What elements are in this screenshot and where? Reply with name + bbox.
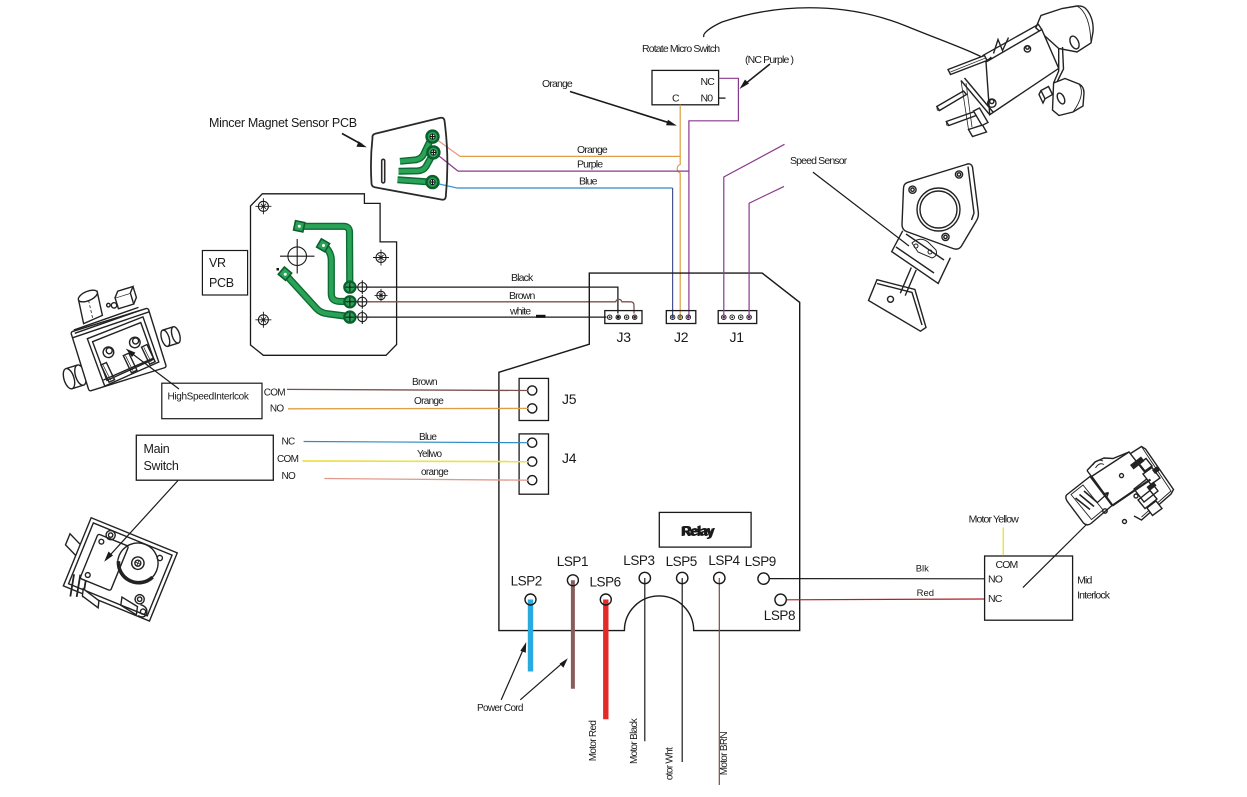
wire black LSP9 to mid interlock NO bbox=[769, 578, 985, 580]
connector J3 bbox=[605, 311, 642, 345]
svg-text:NC: NC bbox=[988, 593, 1003, 605]
svg-text:N0: N0 bbox=[701, 93, 714, 105]
motor wire labels (rotated) bbox=[588, 717, 730, 780]
mid interlock box bbox=[985, 556, 1111, 620]
small cube on top bbox=[113, 286, 138, 308]
Blk / Red wire labels bbox=[916, 564, 934, 599]
label (NC Purple) with arrow bbox=[740, 54, 794, 89]
svg-text:NC: NC bbox=[701, 76, 716, 88]
power cord label with arrows bbox=[477, 642, 568, 714]
wire brown VRPCB to J3 pin4 (hop over black) bbox=[367, 290, 634, 314]
tiny rings bbox=[106, 303, 111, 308]
pointer from HSI switch drawing to box bbox=[126, 349, 179, 389]
svg-text:C: C bbox=[672, 93, 680, 105]
main switch drawing bbox=[48, 513, 177, 628]
svg-text:LSP3: LSP3 bbox=[623, 553, 654, 568]
bottom-left mounting ear bbox=[61, 364, 88, 391]
speed sensor label bbox=[790, 155, 909, 246]
connector J4 bbox=[519, 434, 577, 494]
screw marks bbox=[255, 198, 389, 327]
svg-text:Motor Red: Motor Red bbox=[588, 721, 599, 762]
svg-text:otor Wht: otor Wht bbox=[665, 747, 676, 780]
rotate micro switch box U-RMS bbox=[642, 43, 726, 105]
lower mounting ear bbox=[1053, 79, 1085, 116]
wire cyan power LSP2 bbox=[528, 600, 533, 672]
screws (3d) bbox=[1024, 46, 1030, 52]
top bumps bbox=[1093, 460, 1104, 468]
small dot bbox=[277, 268, 280, 271]
svg-text:Red: Red bbox=[917, 588, 934, 599]
svg-text:J5: J5 bbox=[562, 391, 577, 407]
wire: blue from mincer pcb to J2 pin1 bbox=[437, 176, 673, 317]
front holes bbox=[102, 346, 115, 359]
wire brown HSI COM to J5 bbox=[287, 377, 528, 391]
svg-text:Switch: Switch bbox=[144, 459, 179, 473]
wire purple J1 pin4 to speed sensor bbox=[749, 186, 784, 314]
pad P3 bbox=[427, 176, 439, 188]
round pads bbox=[344, 282, 355, 323]
svg-text:Interlock: Interlock bbox=[1077, 590, 1111, 602]
wire yellow motor to mid interlock COM bbox=[969, 514, 1020, 556]
wire yellow MS COM to J4 bbox=[303, 449, 529, 462]
high speed interlock box bbox=[162, 383, 286, 419]
svg-text:NO: NO bbox=[282, 471, 297, 482]
svg-text:Motor Yellow: Motor Yellow bbox=[969, 514, 1020, 526]
LSP pads bbox=[531, 578, 985, 785]
svg-text:white: white bbox=[509, 306, 531, 318]
wire orange HSI NO to J5 bbox=[288, 396, 528, 409]
upper mounting ear bbox=[1036, 6, 1093, 52]
wire blue MS NC to J4 bbox=[304, 432, 528, 443]
svg-text:LSP9: LSP9 bbox=[745, 554, 776, 569]
wire brown power LSP1 bbox=[571, 580, 575, 689]
detail circles bbox=[1120, 474, 1124, 478]
LSP solder pads LSP1-LSP9 bbox=[525, 572, 786, 605]
wire red LSP8 to mid interlock NC bbox=[786, 598, 985, 601]
svg-text:COM: COM bbox=[264, 388, 286, 399]
svg-text:LSP8: LSP8 bbox=[764, 608, 795, 623]
main body bbox=[1092, 452, 1151, 506]
connector J5 bbox=[519, 378, 577, 420]
plunger bbox=[74, 287, 105, 323]
svg-text:LSP6: LSP6 bbox=[589, 575, 620, 590]
svg-text:Blue: Blue bbox=[579, 176, 598, 188]
arrow bbox=[1098, 493, 1109, 503]
svg-text:Blue: Blue bbox=[419, 432, 437, 443]
pointer from mid interlock box to switch drawing bbox=[1023, 524, 1087, 588]
relay box bbox=[659, 512, 751, 547]
svg-text:Mid: Mid bbox=[1077, 575, 1092, 587]
svg-text:LSP2: LSP2 bbox=[511, 574, 542, 589]
mincer magnet sensor PCB bbox=[209, 116, 447, 200]
svg-text:COM: COM bbox=[996, 559, 1018, 571]
rotate micro switch drawing (top right) bbox=[937, 6, 1093, 137]
pin stub NO bbox=[719, 97, 726, 99]
svg-text:Rotate Micro Switch: Rotate Micro Switch bbox=[642, 43, 720, 55]
wire purple J1 pin1 to speed sensor bbox=[724, 144, 785, 314]
svg-text:NO: NO bbox=[270, 404, 285, 415]
output terminals bbox=[355, 280, 369, 324]
svg-text:HighSpeedInterlcok: HighSpeedInterlcok bbox=[168, 392, 250, 403]
plug block bbox=[1066, 477, 1112, 525]
body back edge bbox=[983, 24, 1042, 62]
bracket spine connecting ears bbox=[1054, 47, 1064, 83]
svg-text:PCB: PCB bbox=[209, 276, 234, 290]
lever blade on top face bbox=[70, 305, 150, 338]
svg-text:Orange: Orange bbox=[577, 144, 608, 156]
label Orange with arrow to orange wire bbox=[542, 78, 677, 126]
bottom shelf line bbox=[102, 358, 156, 380]
dark latch details bbox=[1130, 457, 1145, 470]
wire white VRPCB to J3 pin1 bbox=[367, 306, 607, 318]
roller lever blade bbox=[948, 56, 987, 75]
svg-text:LSP1: LSP1 bbox=[557, 554, 588, 569]
zigzag spring notch bbox=[994, 38, 1009, 54]
main switch box bbox=[136, 435, 298, 482]
inner opening bbox=[86, 316, 161, 386]
VR PCB bbox=[202, 194, 396, 355]
pad P2 bbox=[427, 146, 439, 158]
wire red LSP6 bbox=[603, 600, 608, 720]
svg-text:J3: J3 bbox=[617, 329, 632, 345]
svg-text:orange: orange bbox=[421, 467, 449, 478]
square pads bbox=[278, 221, 329, 281]
wire: orange horizontal from mincer pcb bbox=[436, 139, 680, 156]
finger slots bbox=[1076, 491, 1099, 510]
svg-text:Orange: Orange bbox=[542, 78, 573, 90]
terminal prong 1 bbox=[937, 91, 967, 111]
green traces bbox=[286, 226, 350, 316]
svg-text:Purple: Purple bbox=[577, 159, 603, 171]
back plate bbox=[1131, 447, 1174, 521]
wire: purple horizontal from mincer pcb bbox=[437, 154, 689, 171]
wire motor white LSP5 bbox=[681, 578, 683, 762]
latch tab top bbox=[1139, 459, 1152, 472]
svg-text:Black: Black bbox=[511, 272, 534, 284]
svg-text:Motor BRN: Motor BRN bbox=[719, 732, 730, 776]
crosshair bbox=[280, 239, 315, 274]
terminal prong 2 bbox=[946, 110, 981, 126]
stepped latch blocks bbox=[1134, 478, 1158, 509]
wire pink MS NO to J4 bbox=[324, 467, 528, 480]
svg-text:Motor Black: Motor Black bbox=[629, 717, 640, 764]
terminal prongs bbox=[99, 344, 157, 383]
connector J1 bbox=[718, 311, 757, 345]
body frame bbox=[71, 308, 167, 391]
svg-text:Speed Sensor: Speed Sensor bbox=[790, 155, 848, 167]
wire black VRPCB to J3 pin2 bbox=[367, 272, 618, 314]
svg-text:J4: J4 bbox=[562, 450, 577, 466]
svg-text:LSP5: LSP5 bbox=[666, 554, 697, 569]
pad P1 bbox=[427, 131, 439, 143]
main face bbox=[986, 30, 1059, 115]
svg-text:Power Cord: Power Cord bbox=[477, 703, 523, 714]
svg-text:Brown: Brown bbox=[412, 377, 437, 388]
speed sensor drawing bbox=[869, 164, 979, 331]
high speed interlock switch drawing bbox=[41, 268, 188, 397]
wire: leader curve to rotate micro switch drawing bbox=[704, 8, 996, 65]
svg-text:Mincer Magnet Sensor PCB: Mincer Magnet Sensor PCB bbox=[209, 116, 357, 130]
LSP pad labels bbox=[511, 553, 795, 623]
svg-text:J1: J1 bbox=[730, 329, 745, 345]
wire: orange from C down to J2 pin2 (with hop) bbox=[677, 105, 680, 317]
svg-text:Orange: Orange bbox=[414, 396, 444, 407]
green traces bbox=[398, 142, 432, 182]
svg-text:Main: Main bbox=[144, 442, 170, 456]
pointer from main switch box to drawing bbox=[104, 481, 178, 562]
left wall bbox=[961, 78, 993, 115]
mid interlock switch drawing bbox=[1066, 447, 1174, 525]
right mounting ear bbox=[159, 326, 182, 348]
svg-text:NO: NO bbox=[988, 574, 1003, 586]
main PCB outline bbox=[499, 273, 800, 630]
wire motor brown LSP4 bbox=[718, 578, 720, 785]
svg-text:Yellwo: Yellwo bbox=[417, 449, 442, 460]
small cube stub bbox=[1039, 87, 1053, 104]
svg-text:J2: J2 bbox=[674, 329, 689, 345]
wire motor black LSP3 bbox=[644, 578, 646, 741]
wire: purple from NC to J2 pin3 bbox=[689, 78, 739, 316]
svg-text:Relay: Relay bbox=[682, 524, 715, 539]
svg-text:VR: VR bbox=[209, 256, 226, 270]
connector J2 bbox=[666, 311, 696, 345]
svg-text:COM: COM bbox=[277, 454, 299, 465]
svg-text:Blk: Blk bbox=[916, 564, 929, 575]
svg-text:LSP4: LSP4 bbox=[708, 553, 740, 568]
svg-text:Brown: Brown bbox=[509, 290, 536, 302]
lower-left channel bbox=[969, 125, 987, 137]
svg-text:NC: NC bbox=[282, 437, 296, 448]
